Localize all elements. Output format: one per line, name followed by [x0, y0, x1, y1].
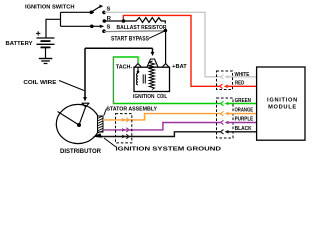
wire red tail to module [228, 85, 257, 87]
svg-text:ORANGE: ORANGE [235, 108, 254, 114]
node bypass junction [164, 29, 168, 33]
wire red: junction to module connector [123, 15, 220, 86]
wire coil high-tension to distributor [85, 47, 153, 49]
connector module upper (dashed box) [217, 71, 233, 90]
wire start bypass (grey) S2 to junction [104, 30, 165, 33]
svg-text:WHITE: WHITE [235, 72, 250, 78]
battery plate short 2 [41, 46, 51, 48]
ignition module box [257, 67, 305, 140]
wire bypass junction to +BAT terminal [165, 31, 167, 64]
battery plate short 1 [41, 40, 51, 42]
battery plus sign [36, 31, 40, 35]
svg-text:COIL WIRE: COIL WIRE [23, 80, 56, 86]
wire black tail to module [228, 131, 257, 133]
connector arrows black [122, 135, 126, 139]
connector arrows orange2 [221, 111, 224, 115]
arrow into distributor cap [83, 97, 87, 102]
svg-text:S: S [107, 6, 111, 12]
ground arrow distributor [93, 133, 103, 138]
wire battery to ground [45, 47, 47, 58]
distributor body [56, 104, 99, 143]
rotor shaft line [79, 108, 85, 126]
wire bottom pole [61, 25, 101, 27]
connector arrows black2 [221, 130, 224, 134]
svg-text:MODULE: MODULE [268, 104, 297, 110]
contact S1 dot [102, 11, 106, 15]
switch arm 2 arrowhead [100, 25, 104, 28]
svg-text:IGNITION: IGNITION [133, 94, 155, 100]
svg-text:START BYPASS: START BYPASS [111, 36, 149, 42]
wire green: TACH to module connector [113, 57, 220, 104]
wire orange tail to module [228, 113, 257, 115]
coil tower [147, 59, 158, 67]
ground [39, 59, 53, 64]
switch arm 1 [91, 6, 100, 12]
node junction R/red [122, 19, 126, 23]
svg-text:IGNITION SYSTEM GROUND: IGNITION SYSTEM GROUND [116, 146, 222, 152]
start bypass leader [149, 31, 164, 38]
svg-text:S: S [107, 24, 111, 30]
wire switch bus [60, 12, 62, 26]
wire purple tail to module [228, 122, 257, 124]
wire white tail to module [228, 76, 257, 78]
svg-text:IGNITION SWITCH: IGNITION SWITCH [25, 5, 75, 11]
connector arrows purple2 [221, 120, 224, 124]
pivot dot 2 [90, 25, 94, 29]
connector arrows red [220, 84, 223, 88]
svg-text:BALLAST RESISTOR: BALLAST RESISTOR [117, 25, 168, 31]
stator leader [104, 109, 107, 116]
svg-text:DISTRIBUTOR: DISTRIBUTOR [60, 149, 102, 155]
connector distributor (dashed box) [116, 114, 132, 143]
coil primary winding [137, 67, 139, 71]
battery plate long 2 [37, 43, 55, 45]
distributor cap terminal [82, 103, 90, 107]
svg-text:BATTERY: BATTERY [6, 41, 33, 47]
svg-text:STATOR ASSEMBLY: STATOR ASSEMBLY [107, 107, 158, 113]
wire black: distributor ground to module [101, 132, 221, 137]
coil wire leader [59, 81, 84, 91]
contact R dot [103, 19, 107, 23]
battery plate long 1 [37, 37, 55, 39]
pivot dot 1 [90, 11, 94, 15]
connector arrows white [221, 75, 224, 79]
wire white: S1 contact to module connector [105, 12, 221, 77]
rotor arm [58, 112, 80, 126]
svg-text:RED: RED [235, 81, 245, 87]
arrow into coil tower [151, 52, 155, 56]
stator assembly hatched block [98, 116, 104, 133]
svg-text:GREEN: GREEN [235, 98, 252, 104]
wire green tail to module [228, 103, 257, 105]
terminal TACH caret [135, 64, 142, 67]
battery symbol [36, 31, 55, 47]
svg-text:+BAT: +BAT [172, 64, 187, 70]
terminal +BAT caret [162, 64, 169, 67]
svg-text:COIL: COIL [157, 94, 167, 100]
connector arrows green [221, 101, 224, 105]
svg-text:BLACK: BLACK [235, 126, 252, 132]
rotor center dot [77, 123, 81, 127]
connector arrows orange [122, 118, 126, 122]
coil core lines [143, 74, 145, 83]
coil secondary winding [149, 61, 154, 90]
wire orange: stator to module [103, 114, 221, 120]
contact S2 dot [102, 29, 106, 33]
svg-text:PURPLE: PURPLE [235, 117, 254, 123]
ground label leader [104, 138, 116, 147]
svg-text:IGNITION: IGNITION [267, 97, 298, 103]
wire purple: stator to module [103, 123, 221, 130]
svg-text:TACH-: TACH- [116, 64, 133, 70]
wire top pole [61, 11, 95, 13]
wire from contact R and resistor ballast R (zigzag) [104, 18, 165, 31]
connector module lower (dashed box) [217, 98, 234, 138]
connector arrows purple [122, 128, 126, 132]
ballast resistor label [116, 24, 168, 30]
wire battery riser to switch bus [46, 19, 61, 38]
ignition coil box [134, 67, 170, 91]
